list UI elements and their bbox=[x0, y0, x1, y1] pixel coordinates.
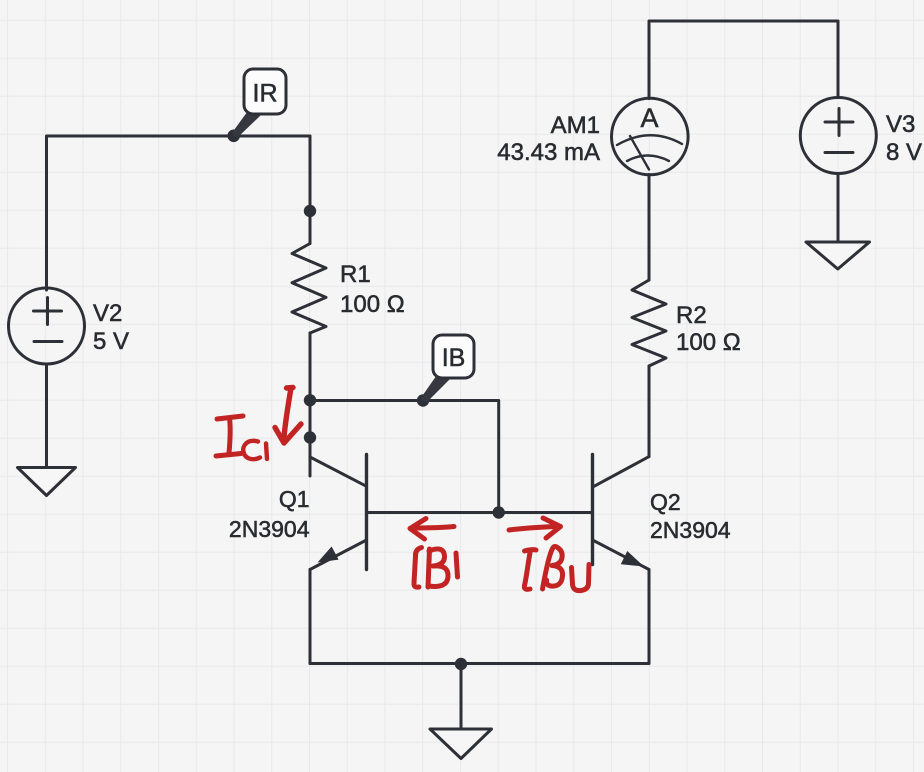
wire: R2 bottom to Q2 collector bbox=[648, 366, 651, 457]
svg-text:43.43 mA: 43.43 mA bbox=[497, 139, 600, 166]
ground (bottom) bbox=[430, 729, 492, 759]
red annotation: IB2 right arrow bbox=[509, 518, 561, 538]
node at R1 bottom junction bbox=[304, 394, 316, 406]
node: IR probe dot bbox=[227, 130, 240, 143]
wire: V2 top to IR net corner bbox=[47, 136, 311, 290]
svg-text:100 Ω: 100 Ω bbox=[676, 329, 741, 356]
svg-text:Q1: Q1 bbox=[279, 486, 310, 512]
flag IR bbox=[232, 69, 287, 138]
flag IB bbox=[421, 335, 475, 403]
svg-text:R1: R1 bbox=[340, 261, 371, 288]
voltage source V3 bbox=[800, 98, 876, 174]
svg-text:8 V: 8 V bbox=[886, 139, 922, 166]
ground (below V3) bbox=[806, 242, 870, 269]
node on bottom rail bbox=[455, 658, 467, 670]
ammeter AM1 bbox=[612, 98, 689, 175]
svg-text:IR: IR bbox=[253, 80, 278, 108]
ground (below V2) bbox=[18, 468, 76, 496]
red annotation: I_C1 label bbox=[216, 416, 267, 459]
wire: ground stub bottom bbox=[460, 664, 463, 730]
wire: collector stub between nodes bbox=[309, 401, 312, 438]
resistor R2 bbox=[632, 280, 666, 366]
svg-text:2N3904: 2N3904 bbox=[229, 516, 310, 542]
node on base rail bbox=[493, 506, 505, 518]
wire: base rail Q1 to Q2 bbox=[367, 511, 593, 514]
red annotation: IC1 down arrow bbox=[275, 388, 301, 444]
resistor R1 bbox=[292, 244, 326, 334]
voltage source V2 bbox=[9, 288, 85, 364]
svg-text:5 V: 5 V bbox=[93, 328, 129, 355]
wire: top rail ammeter to V3 bbox=[649, 21, 838, 99]
wire: Q2 emitter down bbox=[648, 570, 651, 664]
transistor Q2 bbox=[593, 455, 650, 570]
node: IB probe dot bbox=[417, 394, 429, 406]
wire: V2 to ground bbox=[45, 364, 48, 468]
wire: V3 to ground bbox=[837, 174, 840, 243]
svg-text:A: A bbox=[640, 103, 658, 133]
svg-text:IB: IB bbox=[442, 344, 466, 372]
wire: node across to IB drop and down to base rail bbox=[310, 401, 499, 513]
red annotation: IB1 text bbox=[414, 548, 458, 588]
wire: bottom rail bbox=[310, 662, 649, 665]
transistor Q1 bbox=[310, 438, 367, 570]
wire: R1 bottom to node bbox=[309, 333, 312, 400]
node at R1 top bbox=[304, 205, 316, 217]
wire: Q1 emitter down bbox=[309, 570, 312, 664]
wire: node to R1 top bbox=[309, 211, 312, 244]
svg-text:V2: V2 bbox=[93, 300, 122, 327]
svg-text:R2: R2 bbox=[676, 302, 707, 329]
svg-text:100 Ω: 100 Ω bbox=[340, 291, 405, 318]
red annotation: IB1 left arrow bbox=[410, 519, 454, 540]
wire: corner down to node bbox=[309, 136, 312, 211]
svg-text:Q2: Q2 bbox=[650, 489, 681, 515]
svg-text:V3: V3 bbox=[886, 111, 915, 138]
svg-text:2N3904: 2N3904 bbox=[650, 517, 731, 543]
red annotation: IB2 text bbox=[524, 546, 589, 590]
svg-text:AM1: AM1 bbox=[551, 112, 600, 139]
wire: ammeter bottom to R2 top bbox=[648, 175, 651, 281]
node above Q1 collector bbox=[304, 431, 316, 443]
